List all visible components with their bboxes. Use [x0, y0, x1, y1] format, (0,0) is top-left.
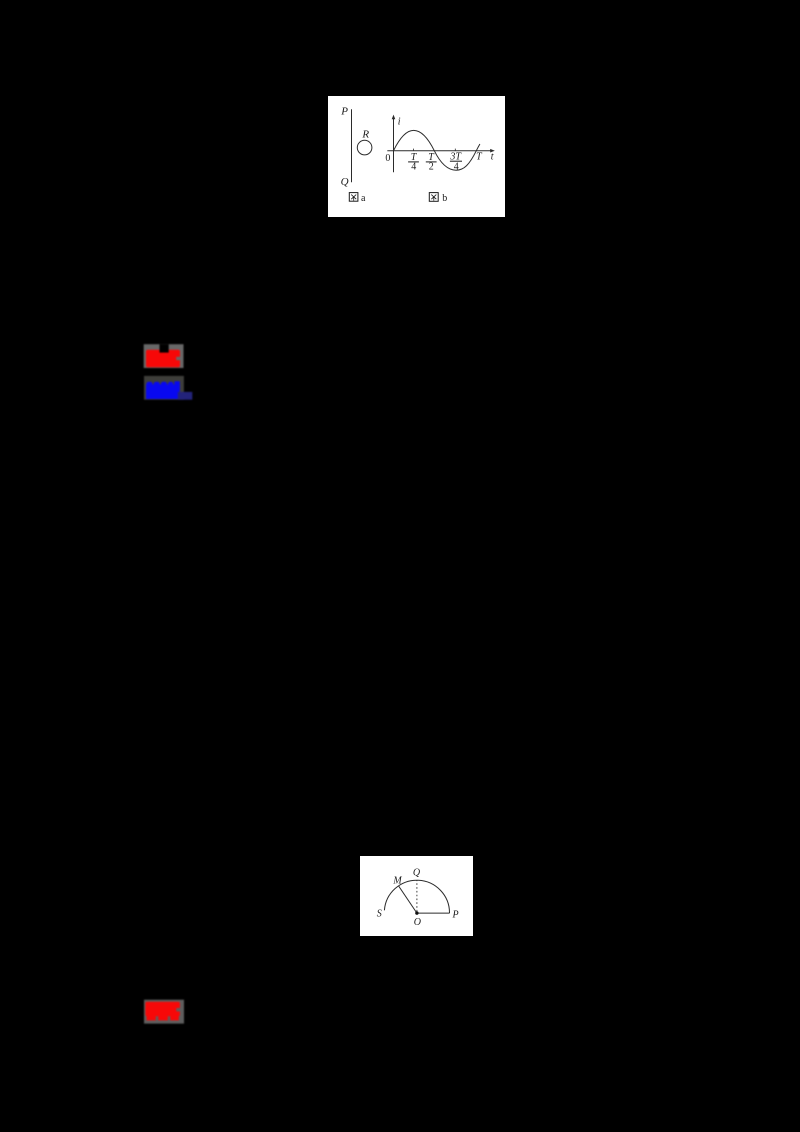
svg-text:4: 4 [411, 161, 416, 172]
svg-text:P: P [340, 105, 348, 117]
svg-text:a: a [361, 193, 366, 204]
svg-text:4: 4 [453, 161, 458, 172]
svg-text:P: P [451, 909, 458, 920]
svg-text:b: b [442, 193, 447, 204]
svg-text:R: R [361, 128, 369, 140]
svg-text:S: S [376, 908, 381, 919]
svg-text:0: 0 [385, 153, 390, 164]
svg-text:Q: Q [413, 867, 421, 878]
svg-text:2: 2 [428, 161, 433, 172]
svg-text:i: i [397, 116, 400, 127]
svg-text:O: O [414, 916, 421, 927]
svg-text:t: t [490, 151, 493, 162]
svg-text:M: M [392, 875, 402, 886]
svg-text:Q: Q [340, 176, 348, 188]
